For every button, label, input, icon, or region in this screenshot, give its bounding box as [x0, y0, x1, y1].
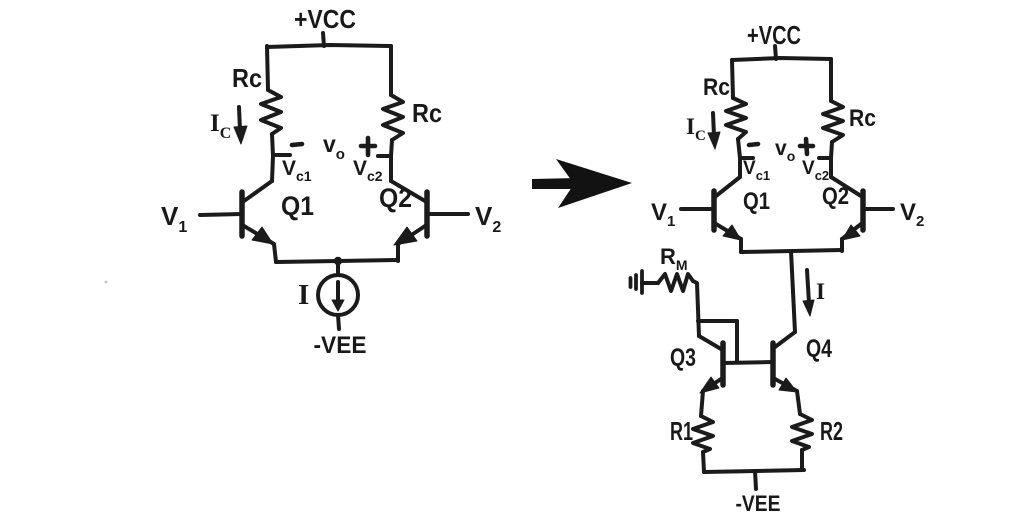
node +VCC label (left circuit) — [294, 4, 356, 34]
value label Rc (left resistor, left circuit) — [232, 63, 262, 93]
resistor R2 — [792, 414, 812, 450]
node Vc2 output tick (left circuit) — [378, 154, 391, 158]
wire: Q2 emitter to common rail (right circuit) — [840, 239, 844, 251]
emitter of Q1 with arrow (left circuit) — [244, 226, 274, 244]
node junction dot common emitters (left circuit) — [334, 257, 342, 265]
transistor Q1 base bar (right circuit) — [711, 191, 717, 230]
resistor R1 — [693, 416, 713, 452]
emitter of Q2 with arrow (left circuit) — [398, 226, 425, 244]
svg-text:Q3: Q3 — [670, 344, 696, 372]
svg-text:R1: R1 — [670, 416, 693, 446]
node -VEE label (left circuit) — [314, 332, 367, 359]
current label Ic with arrow (left circuit) — [210, 110, 231, 142]
wire: collector of Q2 (right circuit) — [831, 177, 861, 196]
wire: top supply rail (right circuit) — [732, 58, 831, 60]
polarity plus label (right circuit) — [800, 139, 813, 154]
wire: common emitter rail (right circuit) — [741, 250, 842, 252]
transistor Q4 label — [806, 335, 832, 363]
svg-text:Q4: Q4 — [806, 335, 832, 363]
wire: tail current path down to mirror (right circuit) — [791, 251, 795, 332]
svg-text:Rc: Rc — [412, 98, 442, 128]
transistor Q1 label (right circuit) — [743, 188, 770, 215]
value label RM (right circuit) — [660, 244, 688, 273]
wire: diode connection vertical drop to base rail — [735, 321, 739, 362]
node V1 label (left circuit) — [161, 201, 187, 236]
svg-text:Q2: Q2 — [379, 183, 412, 213]
wire: RM to Q3 collector (right circuit) — [693, 281, 699, 336]
wire: Rc to Vc2 tick (right circuit) — [831, 142, 832, 177]
wire: Rc to Vc1 tick (right circuit) — [738, 139, 740, 177]
node +VCC label (right circuit) — [747, 20, 801, 50]
wire: Q1 emitter down to common rail (left circuit) — [274, 244, 276, 262]
emitter of Q2 with arrow (right circuit) — [842, 224, 861, 239]
resistor Rc left (left circuit) — [261, 90, 281, 134]
wire: R2 to bottom rail — [800, 450, 804, 470]
svg-text:I: I — [816, 279, 825, 304]
wire: top supply rail (left circuit) — [267, 45, 391, 47]
svg-text:R2: R2 — [820, 416, 843, 446]
transistor Q3 label — [670, 344, 696, 372]
wire: Q3 emitter to R1 — [701, 391, 703, 416]
svg-text:Q1: Q1 — [281, 191, 314, 221]
node Vc2 output tick (right circuit) — [819, 156, 831, 160]
wire: Rc right branch from rail (right circuit) — [829, 59, 833, 101]
resistor RM (right circuit) — [658, 274, 693, 291]
current label Ic with arrow (right circuit) — [686, 114, 706, 144]
resistor Rc right (left circuit) — [383, 95, 403, 140]
transistor Q4 base bar — [770, 343, 776, 385]
transistor Q2 base bar (right circuit) — [860, 191, 866, 230]
transistor Q2 label (left circuit) — [379, 183, 412, 213]
svg-text:-VEE: -VEE — [314, 332, 367, 359]
polarity plus label (left circuit) — [361, 138, 375, 155]
value label Rc (right resistor, right circuit) — [849, 105, 876, 132]
emitter of Q3 with arrow — [703, 379, 721, 391]
transformation arrow — [532, 159, 632, 208]
wire: current source to -VEE (left circuit) — [338, 315, 339, 329]
current source I (left circuit) — [318, 275, 358, 315]
wire: Q1 emitter to common rail (right circuit) — [739, 239, 743, 252]
wire: collector of Q4 up to tail current — [775, 332, 795, 347]
node Vc1 output tick (left circuit) — [273, 153, 290, 157]
wire: base lead V2 (left circuit) — [427, 212, 468, 216]
transistor Q2 label (right circuit) — [822, 183, 849, 210]
transistor Q3 base bar — [720, 343, 726, 385]
wire: R1 to bottom rail — [703, 452, 704, 472]
wire: collector of Q1 (right circuit) — [716, 177, 740, 196]
wire: Rc to Vc2 tick (left circuit) — [391, 140, 392, 181]
wire: Rc right branch from rail (left circuit) — [389, 46, 393, 95]
resistor Rc left (right circuit) — [726, 98, 746, 139]
resistor Rc right (right circuit) — [823, 101, 843, 142]
svg-text:-VEE: -VEE — [736, 491, 781, 516]
emitter of Q1 with arrow (right circuit) — [716, 224, 741, 239]
faint speck on page — [105, 281, 108, 284]
wire: collector of Q1 (left circuit) — [244, 181, 272, 201]
wire: rail to current source (left circuit) — [336, 261, 340, 275]
wire: +VCC stub (right circuit) — [775, 46, 776, 59]
current source label I (left circuit) — [298, 279, 309, 311]
transistor Q2 base bar (left circuit) — [424, 192, 430, 236]
node V2 label (left circuit) — [475, 201, 501, 236]
emitter of Q4 with arrow — [775, 379, 797, 391]
transistor Q1 label (left circuit) — [281, 191, 314, 221]
wire: left collector branch from rail to Rc (right circuit) — [732, 60, 733, 98]
polarity minus label (left circuit) — [292, 144, 302, 145]
svg-text:+VCC: +VCC — [294, 4, 356, 34]
svg-text:Rc: Rc — [232, 63, 262, 93]
wire: base lead V2 (right circuit) — [863, 207, 893, 211]
wire: +VCC stub (left circuit) — [323, 33, 324, 46]
ground symbol (RM input) — [631, 271, 643, 293]
transistor Q1 base bar (left circuit) — [239, 192, 245, 236]
node V1 label (right circuit) — [651, 199, 675, 230]
wire: collector of Q2 (left circuit) — [391, 181, 425, 201]
wire: bottom rail to -VEE stub — [755, 471, 756, 489]
wire: base rail Q3-Q4 — [723, 362, 773, 363]
svg-text:Rc: Rc — [849, 105, 876, 132]
svg-text:Q1: Q1 — [743, 188, 770, 215]
wire: ground to RM (right circuit) — [642, 281, 658, 285]
node vo label (right circuit) — [775, 137, 795, 164]
wire: Q4 emitter to R2 — [797, 391, 800, 414]
wire: Q2 emitter down to common rail (left circuit) — [396, 244, 400, 261]
wire: Rc to Vc1 tick (left circuit) — [272, 134, 273, 181]
node -VEE label (right circuit) — [736, 491, 781, 516]
wire: common emitter rail (left circuit) — [276, 260, 398, 262]
node label Vc2 (right circuit) — [802, 158, 829, 183]
svg-text:I: I — [298, 279, 309, 311]
node label Vc1 (left circuit) — [282, 157, 312, 184]
wire: left collector branch from rail to Rc (left circuit) — [267, 46, 268, 90]
node vo label (left circuit) — [323, 131, 345, 163]
wire: bottom rail (current mirror) — [704, 470, 804, 472]
node label Vc2 (left circuit) — [353, 157, 383, 184]
wire: base lead V1 (left circuit) — [200, 214, 242, 215]
current label I with arrow (right circuit) — [807, 270, 809, 303]
svg-text:Q2: Q2 — [822, 183, 849, 210]
value label Rc (right resistor, left circuit) — [412, 98, 442, 128]
node label Vc1 (right circuit) — [743, 158, 770, 183]
wire: base lead V1 (right circuit) — [681, 207, 714, 211]
node V2 label (right circuit) — [900, 199, 924, 230]
polarity minus label (right circuit) — [749, 144, 758, 145]
value label R2 — [820, 416, 843, 446]
node Vc1 output tick (right circuit) — [740, 156, 753, 160]
value label Rc (left resistor, right circuit) — [703, 74, 730, 101]
svg-text:Rc: Rc — [703, 74, 730, 101]
wire: collector of Q3 — [699, 336, 721, 349]
value label R1 — [670, 416, 693, 446]
wire: diode connection horizontal (Q3 collector to bases) — [698, 319, 737, 323]
